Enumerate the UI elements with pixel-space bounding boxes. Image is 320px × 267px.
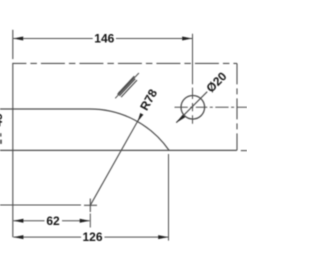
wire extension line from arc center to left: [0, 204, 81, 206]
svg-text:146: 146: [94, 32, 114, 46]
wire phantom top dash-dot line: [13, 62, 237, 64]
hole circle Ø20: [181, 96, 205, 120]
svg-text:45: 45: [0, 113, 5, 126]
node arc center cross: [84, 204, 97, 206]
wire bottom part edge: [0, 149, 237, 151]
node dimension 62 line: [13, 220, 44, 222]
symbol double slash mark: [115, 73, 139, 98]
wire left vertical edge / extension line: [12, 30, 14, 59]
svg-text:62: 62: [46, 214, 60, 228]
node dimension 126 line: [13, 236, 81, 238]
svg-text:126: 126: [82, 230, 102, 244]
wire leader line R78: [90, 116, 141, 206]
wire bottom edge continuation dash right: [241, 150, 247, 152]
node dimension 146 line: [13, 38, 93, 40]
wire cropped mark at left edge: [0, 140, 2, 144]
wire leader line for hole: [176, 92, 207, 123]
wire extension/centerline through hole: [192, 34, 194, 84]
wire hole horizontal centerline: [175, 106, 248, 108]
wire extension below arc center: [89, 214, 91, 228]
arc R78 part edge: [90, 109, 169, 150]
wire cropped mark 2 at left edge: [0, 133, 1, 136]
wire phantom right dash-dot line: [236, 63, 238, 150]
wire extension line at x 168.5: [168, 154, 170, 241]
wire top-left part edge: [0, 108, 90, 110]
